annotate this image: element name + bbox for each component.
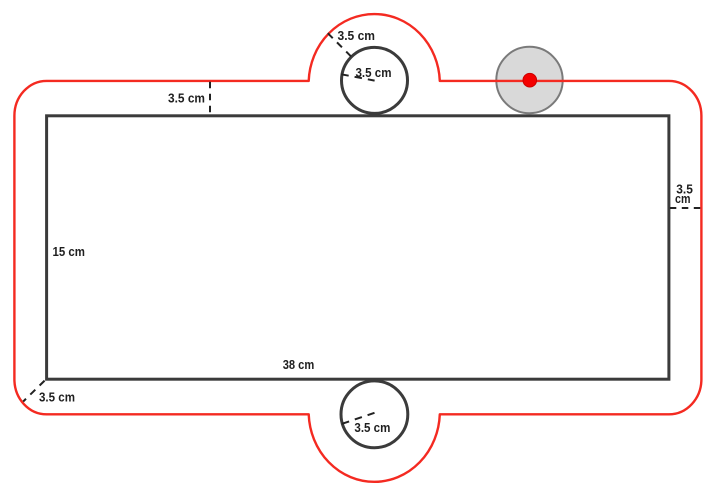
svg-text:15 cm: 15 cm [53, 244, 86, 259]
svg-text:3.5 cm: 3.5 cm [338, 28, 376, 43]
rectangle 38cm x 15cm [47, 116, 669, 379]
dashed vertical 3.5cm top-left [209, 82, 211, 114]
dashed radius top circle [341, 74, 374, 80]
svg-text:cm: cm [675, 191, 691, 206]
svg-text:3.5 cm: 3.5 cm [354, 420, 390, 435]
dashed diagonal top bump [328, 33, 352, 57]
gray rolling circle [496, 47, 562, 113]
svg-text:38 cm: 38 cm [283, 357, 315, 372]
svg-text:3.5 cm: 3.5 cm [39, 390, 75, 405]
top circle [342, 47, 408, 113]
dashed diagonal bottom-left [23, 381, 44, 402]
svg-text:3.5 cm: 3.5 cm [168, 91, 205, 106]
svg-text:3.5 cm: 3.5 cm [356, 65, 392, 80]
red center dot [523, 73, 537, 87]
bottom circle [341, 381, 408, 448]
dashed horizontal right [670, 207, 701, 209]
dashed radius bottom circle [342, 413, 375, 424]
